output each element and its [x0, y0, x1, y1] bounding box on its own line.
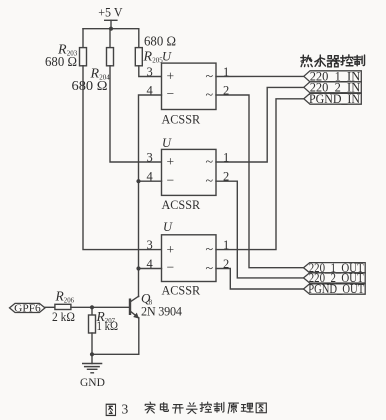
- wire U1 pin4 to collector bus: [139, 95, 162, 297]
- svg-text:+5 V: +5 V: [98, 5, 123, 20]
- connector flags right: [10, 71, 366, 313]
- node U2 pin4 junction: [136, 179, 140, 183]
- emitter arrowhead: [133, 313, 139, 319]
- node PGND_OUT flag: [304, 284, 366, 294]
- wire +5V rail: [83, 28, 139, 30]
- svg-text:PGND_OUT: PGND_OUT: [308, 282, 364, 296]
- svg-text:2: 2: [223, 83, 229, 97]
- svg-text:ACSSR: ACSSR: [162, 198, 201, 212]
- svg-text:4: 4: [147, 257, 154, 271]
- svg-text:206: 206: [64, 297, 75, 304]
- svg-text:GND: GND: [80, 377, 105, 389]
- wire R203 top lead: [82, 29, 84, 48]
- svg-text:U: U: [163, 220, 173, 234]
- svg-text:~: ~: [206, 243, 214, 258]
- wire emitter down: [138, 318, 140, 354]
- svg-text:U: U: [162, 49, 172, 63]
- resistor R205: [135, 48, 142, 66]
- wire R205 bottom to U1 pin3: [139, 66, 162, 77]
- svg-text:−: −: [167, 260, 175, 275]
- node 220_2_IN flag: [304, 82, 362, 93]
- svg-text:2: 2: [223, 257, 229, 271]
- component value and name labels: [45, 5, 182, 389]
- caption 图3 家电开关控制原理图: [106, 401, 266, 416]
- svg-text:680 Ω: 680 Ω: [144, 34, 176, 49]
- svg-text:~: ~: [206, 70, 214, 85]
- svg-text:~: ~: [206, 88, 214, 103]
- wire emitter return: [92, 353, 139, 355]
- svg-text:ACSSR: ACSSR: [162, 284, 201, 298]
- solid-state relay U1 ACSSR box: [162, 63, 217, 109]
- svg-text:2N 3904: 2N 3904: [141, 304, 182, 318]
- svg-text:3: 3: [147, 238, 153, 252]
- node PGND_IN flag: [304, 93, 362, 104]
- junction dots: [90, 27, 141, 357]
- svg-text:R: R: [143, 50, 153, 65]
- svg-text:~: ~: [206, 174, 214, 189]
- svg-text:1: 1: [223, 65, 229, 79]
- wire U2 pin1 to 220_2_IN: [216, 87, 304, 162]
- svg-text:4: 4: [147, 83, 154, 97]
- flag texts: [14, 70, 364, 315]
- node ground junction: [90, 352, 94, 356]
- +5V power symbol: [105, 19, 117, 21]
- wire ground stem: [91, 354, 93, 363]
- resistor R207: [89, 315, 96, 333]
- svg-text:+: +: [167, 242, 175, 257]
- resistor R203: [80, 48, 87, 66]
- solid-state relay U3 ACSSR box: [162, 235, 217, 282]
- wire U2 pin2 to 220_2_OUT: [216, 181, 304, 278]
- svg-text:3: 3: [147, 65, 153, 79]
- svg-text:2: 2: [223, 170, 229, 184]
- transistor Q8: [130, 296, 138, 302]
- svg-text:3: 3: [122, 401, 129, 416]
- node U3 pin4 junction: [136, 266, 140, 270]
- wire R204 bottom to U2 pin3: [110, 66, 162, 162]
- svg-text:ACSSR: ACSSR: [162, 113, 201, 127]
- svg-text:2 kΩ: 2 kΩ: [52, 310, 75, 324]
- svg-text:1: 1: [223, 150, 229, 164]
- svg-text:U: U: [162, 136, 172, 150]
- node base junction: [90, 305, 94, 309]
- wire R204 top lead: [109, 29, 111, 48]
- node 220_2_OUT flag: [304, 273, 366, 283]
- wire U1 pin2 to 220_1_OUT: [216, 95, 304, 268]
- node GPF6 flag: [10, 303, 46, 312]
- wire R207 top lead: [91, 307, 93, 315]
- svg-text:PGND_IN: PGND_IN: [309, 92, 360, 106]
- resistor R206: [55, 304, 71, 309]
- wire U3 pin4 stub: [139, 268, 162, 270]
- svg-text:1: 1: [223, 238, 229, 252]
- svg-text:680 Ω: 680 Ω: [45, 54, 77, 69]
- svg-text:+: +: [167, 69, 175, 84]
- svg-text:~: ~: [206, 155, 214, 170]
- wire GPF6 to R206: [45, 306, 55, 308]
- wire PGND_IN to U3 pin1: [216, 99, 304, 250]
- wire R203 bottom to U3 pin3: [83, 66, 162, 250]
- svg-text:3: 3: [147, 150, 153, 164]
- wire R205 top lead: [138, 29, 140, 48]
- ground: [83, 363, 102, 365]
- svg-text:+: +: [167, 154, 175, 169]
- pin numbers and ACSSR labels: [147, 65, 230, 298]
- node 220_1_OUT flag: [304, 263, 366, 273]
- resistor R204: [107, 48, 114, 66]
- svg-text:680 Ω: 680 Ω: [72, 78, 108, 93]
- wire R206 to Q8 base: [71, 306, 129, 308]
- wire U2 pin4 stub: [139, 180, 162, 182]
- wire R207 bottom lead: [91, 333, 93, 354]
- wire U1 pin1 to 220_1_IN: [216, 75, 304, 77]
- solid-state relay U2 ACSSR box: [162, 149, 217, 195]
- node 220_1_IN flag: [304, 71, 362, 82]
- svg-text:4: 4: [147, 170, 154, 184]
- svg-text:1 kΩ: 1 kΩ: [97, 319, 119, 333]
- svg-text:−: −: [167, 172, 175, 187]
- node +5V junction: [109, 27, 113, 31]
- svg-text:−: −: [167, 86, 175, 101]
- svg-text:~: ~: [206, 261, 214, 276]
- label 热水器控制 (drawn glyphs): [301, 55, 365, 67]
- svg-text:GPF6: GPF6: [14, 302, 41, 314]
- wire U3 pin2 to PGND_OUT: [216, 269, 304, 290]
